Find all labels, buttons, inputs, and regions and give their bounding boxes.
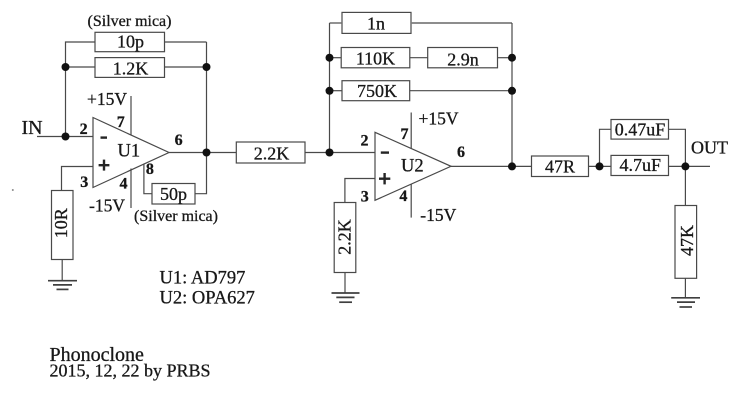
- node 2.9n right junction: [508, 54, 516, 62]
- ground G1: [48, 281, 77, 290]
- resistor 750K: [342, 81, 410, 101]
- node U2 input junction: [326, 149, 334, 157]
- node input junction: [62, 133, 70, 141]
- svg-text:7: 7: [401, 126, 409, 143]
- svg-text:6: 6: [175, 132, 183, 149]
- wire inverting input U1: [66, 136, 94, 138]
- wire feedback left vertical: [65, 67, 67, 137]
- node OUT junction: [681, 162, 689, 170]
- svg-text:4: 4: [399, 188, 407, 205]
- wire pin3 U1 to 10R: [62, 167, 94, 191]
- capacitor 50p: [152, 184, 195, 205]
- ground G3: [671, 298, 700, 307]
- wire 1.2K right: [165, 66, 207, 68]
- wire 10R to ground: [61, 260, 63, 281]
- svg-text:2.2K: 2.2K: [254, 143, 290, 163]
- resistor 2.2K series: [236, 142, 305, 163]
- capacitor 0.47uF: [611, 120, 669, 140]
- wire pin4 -15V U1: [130, 169, 132, 209]
- wire 4.7uF right: [669, 165, 686, 167]
- wire 50p right to output node: [195, 153, 207, 194]
- plus U2: [379, 173, 390, 184]
- svg-text:(Silver mica): (Silver mica): [88, 13, 172, 30]
- wire pin8 U1 to 50p: [144, 164, 152, 194]
- wire U2 output: [451, 165, 532, 167]
- svg-text:2.9n: 2.9n: [447, 50, 479, 70]
- node feedback right junction: [203, 63, 211, 71]
- node 110K left junction: [326, 54, 334, 62]
- wire to 10p left: [66, 42, 96, 67]
- svg-text:10R: 10R: [51, 208, 71, 238]
- svg-text:47R: 47R: [545, 156, 575, 176]
- wire 110K to 2.9n: [410, 57, 428, 59]
- svg-text:IN: IN: [22, 117, 43, 139]
- svg-text:1n: 1n: [367, 14, 385, 34]
- svg-text:U1: U1: [117, 142, 140, 162]
- wire 2.9n right: [498, 57, 513, 59]
- wire U2 feedback right vertical: [511, 23, 513, 166]
- svg-text:8: 8: [146, 161, 154, 178]
- wire OUT lead: [685, 165, 710, 167]
- svg-text:7: 7: [117, 114, 125, 131]
- svg-text:U2: OPA627: U2: OPA627: [160, 289, 255, 309]
- resistor 110K: [341, 48, 410, 68]
- minus U2: [381, 151, 389, 153]
- svg-text:U2: U2: [401, 156, 424, 176]
- node 750K right junction: [508, 87, 516, 95]
- node 750K left junction: [326, 87, 334, 95]
- svg-text:OUT: OUT: [691, 138, 728, 158]
- resistor 2.2K shunt: [334, 203, 356, 273]
- capacitor 10p: [95, 32, 165, 51]
- wire 2.2K to U2 input: [305, 152, 375, 154]
- wire 750K left: [330, 90, 343, 92]
- capacitor 4.7uF: [611, 155, 669, 175]
- svg-text:6: 6: [457, 144, 465, 161]
- resistor 47R: [532, 156, 589, 177]
- wire branch up to 0.47uF: [600, 129, 612, 166]
- plus U1: [99, 160, 110, 171]
- svg-text:3: 3: [361, 189, 369, 206]
- wire U2 feedback left vertical: [329, 23, 331, 153]
- svg-text:47K: 47K: [677, 225, 697, 256]
- svg-text:-15V: -15V: [89, 196, 125, 216]
- wire 47R to caps: [589, 165, 612, 167]
- svg-text:(Silver mica): (Silver mica): [134, 208, 218, 225]
- svg-text:2: 2: [80, 121, 88, 138]
- svg-text:10p: 10p: [117, 32, 144, 52]
- wire 110K left: [330, 57, 342, 59]
- node U1 output junction: [203, 149, 211, 157]
- svg-text:2015, 12, 22 by PRBS: 2015, 12, 22 by PRBS: [50, 361, 211, 381]
- wire 2.2K shunt to ground: [344, 273, 346, 294]
- wire 10p right: [165, 41, 207, 43]
- resistor 1.2K: [95, 58, 165, 78]
- wire 750K right: [410, 90, 512, 92]
- svg-text:0.47uF: 0.47uF: [615, 119, 666, 139]
- svg-text:+15V: +15V: [419, 108, 459, 128]
- svg-text:750K: 750K: [357, 81, 397, 101]
- wire 0.47uF right down: [669, 129, 686, 166]
- resistor 10R: [52, 191, 74, 260]
- svg-text:+15V: +15V: [87, 89, 127, 109]
- wire 47K to ground: [684, 278, 686, 298]
- node feedback left junction: [62, 63, 70, 71]
- svg-text:2: 2: [361, 133, 369, 150]
- capacitor 2.9n: [428, 48, 498, 68]
- wire 1n right: [412, 22, 512, 24]
- svg-text:1.2K: 1.2K: [113, 58, 149, 78]
- svg-text:3: 3: [80, 174, 88, 191]
- wire 1n left: [330, 22, 342, 24]
- wire pin4 -15V U2: [410, 184, 412, 218]
- svg-text:110K: 110K: [356, 49, 395, 69]
- wire U1 output: [169, 152, 236, 154]
- wire 1.2K left: [66, 66, 96, 68]
- node U2 output junction: [508, 162, 516, 170]
- wire pin7 +15V U1: [130, 96, 132, 135]
- resistor 47K: [675, 206, 697, 279]
- node 47R output junction: [596, 162, 604, 170]
- svg-text:4.7uF: 4.7uF: [620, 155, 662, 175]
- op-amp U2: [375, 132, 451, 200]
- op-amp U1: [93, 118, 169, 188]
- svg-text:-15V: -15V: [420, 205, 456, 225]
- wire pin3 U2 to 2.2K shunt: [345, 179, 375, 203]
- ground G2: [332, 293, 360, 302]
- capacitor 1n: [342, 12, 411, 33]
- svg-text:U1: AD797: U1: AD797: [160, 269, 246, 289]
- stray mark: [12, 189, 14, 191]
- minus U1: [101, 136, 108, 138]
- svg-text:2.2K: 2.2K: [334, 219, 354, 255]
- svg-text:50p: 50p: [160, 184, 187, 204]
- wire IN lead: [37, 136, 66, 138]
- wire pin7 +15V U2: [410, 113, 412, 149]
- wire feedback right vertical: [206, 42, 208, 153]
- wire to 47K: [684, 166, 686, 205]
- svg-text:4: 4: [120, 176, 128, 193]
